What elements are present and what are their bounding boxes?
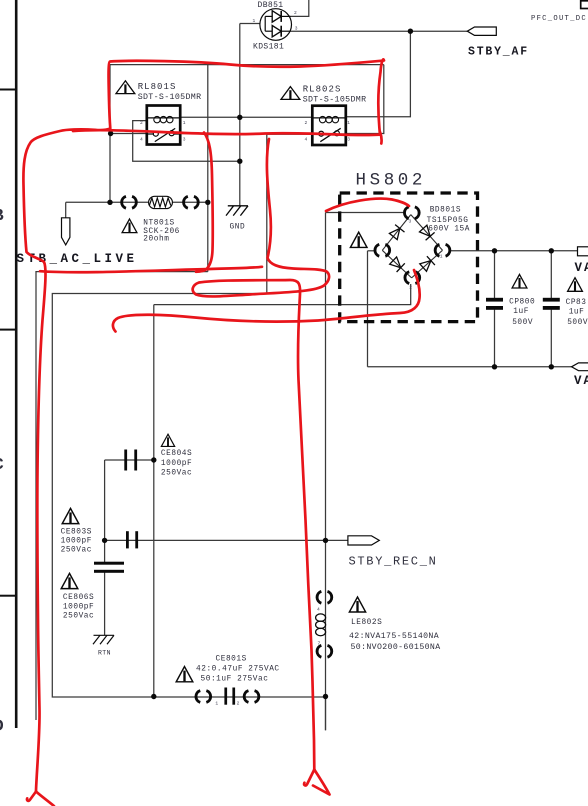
wire CP800 top lead [494, 251, 496, 299]
BD801S labels [427, 207, 470, 234]
net flag VA+ top right [578, 247, 588, 256]
CE806S labels [63, 594, 94, 620]
svg-text:3: 3 [347, 136, 350, 142]
wire NT801S row [66, 201, 149, 203]
wire LE802S bottom stub [325, 697, 327, 731]
svg-text:BD801S: BD801S [430, 207, 461, 215]
svg-text:42:NVA175-55140NA: 42:NVA175-55140NA [349, 632, 439, 641]
CE804S labels [161, 450, 192, 478]
svg-text:50:NVO200-60150NA: 50:NVO200-60150NA [351, 643, 441, 652]
svg-text:SCK-206: SCK-206 [143, 228, 180, 236]
wire vertical x=383.8 rail to RL802S pin3 [346, 65, 384, 134]
capacitor CE801S connector left [196, 691, 211, 703]
svg-text:1000pF: 1000pF [63, 603, 94, 611]
junction CP83x bottom [549, 364, 554, 369]
svg-text:50:1uF 275Vac: 50:1uF 275Vac [201, 676, 269, 684]
CE801S pin numbers [215, 701, 239, 707]
BD801S warning triangle [350, 232, 367, 247]
svg-text:TS15P05G: TS15P05G [427, 217, 469, 225]
red pen stroke: RL802S pin4 trace, loop and long descender [193, 139, 330, 795]
svg-text:4: 4 [140, 136, 143, 142]
CP800 labels [509, 299, 535, 327]
LE802S warning triangle [349, 597, 365, 612]
wire bridge right DC+ rail [451, 250, 578, 252]
junction relay coil bus upper [237, 115, 242, 120]
red pen stroke: trace down NT right vertical [196, 133, 213, 272]
red pen stroke: arc over bridge top wire [326, 199, 409, 211]
ground GND [226, 206, 248, 216]
capacitor CE806S [94, 562, 124, 573]
svg-text:CE804S: CE804S [161, 450, 192, 458]
junction CP800 bottom [492, 364, 497, 369]
svg-text:1: 1 [253, 18, 256, 24]
wire bridge top to long vertical [326, 212, 405, 214]
wire vertical x=153.8 [153, 305, 155, 697]
svg-text:PFC_OUT_DC-: PFC_OUT_DC- [531, 15, 588, 23]
bridge connector right (pin 1) [435, 244, 450, 256]
svg-text:1: 1 [215, 701, 218, 707]
svg-text:STB_AC_LIVE: STB_AC_LIVE [17, 252, 138, 266]
wire CP800 bottom lead [494, 310, 496, 367]
svg-text:CE803S: CE803S [61, 528, 92, 536]
svg-text:4: 4 [305, 136, 308, 142]
red pen stroke: relay loop with left tail [23, 59, 384, 806]
NT801S label [143, 220, 180, 244]
wire DB851 pin3 to STBY_AF flag [291, 30, 468, 32]
CE803S labels [61, 528, 92, 554]
junction STBY_REC_N node [323, 538, 328, 543]
svg-text:1000pF: 1000pF [161, 460, 192, 468]
svg-text:STBY_REC_N: STBY_REC_N [349, 555, 438, 569]
wire bottom DC- rail [368, 366, 573, 368]
CP83x warning triangle [568, 278, 583, 292]
svg-text:3: 3 [409, 219, 412, 225]
wire CE803S / STBY_REC_N row [105, 539, 348, 541]
wire bridge left stub [368, 250, 375, 252]
svg-text:RL801S: RL801S [138, 82, 177, 92]
red pen stroke: wavy line into loop from left [40, 267, 262, 272]
capacitor CE803S [126, 531, 138, 548]
svg-text:CE801S: CE801S [216, 656, 247, 664]
wire RL801S pin3 right [180, 133, 208, 135]
svg-text:CE806S: CE806S [63, 594, 94, 602]
bridge pin numbers [409, 219, 443, 291]
CE801S warning triangle [176, 667, 193, 682]
RL801S pin numbers [140, 120, 186, 142]
svg-text:RL802S: RL802S [303, 85, 342, 95]
svg-text:NT801S: NT801S [143, 220, 174, 228]
capacitor CE801S connector right [244, 691, 259, 703]
wire NT801S right segment [172, 201, 207, 203]
svg-text:B: B [0, 207, 4, 226]
RL801S warning triangle [116, 81, 135, 94]
svg-text:1000pF: 1000pF [61, 537, 92, 545]
border frame vertical line [0, 0, 16, 728]
svg-text:CP83: CP83 [566, 299, 587, 307]
wire RL801S pin4 left [110, 133, 147, 135]
junction CP83x top [549, 248, 554, 253]
svg-text:7: 7 [318, 641, 321, 647]
svg-text:500V: 500V [567, 319, 588, 327]
capacitor CE801S plates [224, 688, 235, 705]
svg-text:VA: VA [574, 374, 588, 388]
thermistor NT801S connector right [184, 196, 199, 208]
svg-text:LE802S: LE802S [351, 619, 382, 627]
svg-text:HS802: HS802 [356, 171, 427, 191]
thermistor NT801S body [149, 196, 173, 208]
svg-text:250Vac: 250Vac [61, 546, 92, 554]
wire vertical bridge-minus to bottom rail [367, 251, 369, 367]
thermistor NT801S connector left [122, 196, 137, 208]
ground RTN [93, 635, 114, 644]
wire DB851 pin2 up [291, 0, 309, 16]
wire top rail y=64.6 [110, 64, 384, 66]
CP83x labels [566, 299, 588, 327]
net flag STBY_REC_N [348, 536, 379, 545]
svg-text:20ohm: 20ohm [143, 236, 169, 244]
wire CE806S to RTN [104, 573, 106, 636]
svg-text:2: 2 [305, 120, 308, 126]
svg-text:1: 1 [183, 120, 186, 126]
wire CP83x bottom lead [550, 310, 552, 367]
wire CP83x top lead [550, 251, 552, 299]
CE801S labels [196, 656, 280, 684]
svg-text:2: 2 [140, 120, 143, 126]
svg-text:1uF: 1uF [513, 308, 529, 316]
net flag VA- bottom right [572, 363, 588, 371]
wire CE804S row [105, 459, 154, 461]
svg-text:2: 2 [294, 10, 297, 16]
inductor LE802S coil [316, 614, 326, 636]
relay RL801S [147, 106, 180, 145]
red pen stroke: loop corner overshoot tail [380, 132, 382, 144]
junction at STBY_AF branch [408, 29, 413, 34]
relay RL802S [312, 106, 346, 145]
svg-text:DB851: DB851 [258, 1, 284, 10]
RL802S pin numbers [305, 120, 351, 142]
CP800 warning triangle [512, 274, 527, 288]
junction bottom rail left [151, 694, 156, 699]
CE806S warning triangle [61, 573, 78, 588]
wire vertical x=207.8 rail to lower-left [207, 65, 209, 272]
wire RL802S pin4 down-around [52, 134, 325, 697]
NT801S warning triangle [122, 219, 137, 233]
junction CE804S [151, 457, 156, 462]
svg-text:1uF: 1uF [569, 308, 585, 316]
svg-text:3: 3 [183, 136, 186, 142]
junction relay coil bus lower [237, 159, 242, 164]
bridge connector top (pin 3) [404, 207, 419, 219]
svg-text:500V: 500V [512, 319, 533, 327]
inductor LE802S connector bottom (pin 7) [317, 645, 332, 657]
svg-text:1: 1 [440, 254, 443, 260]
wire RL801S pin2 jog [133, 121, 240, 162]
svg-text:250Vac: 250Vac [63, 612, 94, 620]
junction NT801S left [107, 200, 112, 205]
capacitor CE804S [124, 450, 137, 471]
DB851 pin numbers [253, 10, 298, 32]
svg-text:3: 3 [295, 26, 298, 32]
capacitor CP83x [543, 298, 560, 310]
wire vertical x=110 rail to NT801S [109, 65, 111, 203]
junction RL801S pin4 [108, 131, 113, 136]
svg-text:2: 2 [409, 285, 412, 291]
svg-text:250Vac: 250Vac [161, 470, 192, 478]
wire x=410 down to RL802S pin1 [346, 31, 411, 117]
junction NT801S right [205, 200, 210, 205]
junction bottom rail right [323, 694, 328, 699]
capacitor CP800 [486, 298, 503, 310]
svg-text:KDS181: KDS181 [253, 43, 284, 52]
dual diode DB851 [260, 9, 292, 41]
RL802S warning triangle [281, 87, 300, 100]
svg-text:STBY_AF: STBY_AF [468, 45, 529, 58]
junction CE803S left [102, 538, 107, 543]
wire RL801S pin1 to RL802S pin2 [180, 116, 312, 118]
svg-text:SDT-S-105DMR: SDT-S-105DMR [138, 93, 202, 102]
CE803S warning triangle [62, 508, 79, 523]
svg-text:4: 4 [317, 607, 320, 613]
wire W1 from NT right down-left [36, 272, 208, 720]
svg-text:VA: VA [575, 261, 588, 275]
wire DB851 pin1 to vertical [240, 23, 261, 25]
svg-text:CP800: CP800 [509, 299, 535, 307]
wire long vertical x=325.5 [325, 213, 327, 731]
svg-text:600V 15A: 600V 15A [428, 226, 470, 234]
wire STB_AC_LIVE stub [65, 202, 67, 218]
net flag STBY_AF [467, 27, 496, 35]
red pen stroke: bridge bottom trace going left [113, 270, 420, 332]
CE804S warning triangle [161, 434, 174, 446]
svg-text:2: 2 [237, 701, 240, 707]
svg-text:RTN: RTN [98, 650, 111, 657]
svg-text:42:0.47uF 275VAC: 42:0.47uF 275VAC [196, 666, 280, 674]
wire bridge bottom AC input [154, 284, 411, 305]
svg-text:1: 1 [347, 120, 350, 126]
bridge rectifier BD801S [382, 215, 442, 278]
PFC_OUT_DC corner box [581, 1, 588, 9]
LE802S labels [349, 619, 441, 652]
bridge connector left [375, 244, 390, 256]
svg-text:SDT-S-105DMR: SDT-S-105DMR [303, 95, 367, 104]
junction CP800 top [492, 248, 497, 253]
net flag STB_AC_LIVE [62, 218, 70, 245]
svg-text:C: C [0, 456, 4, 475]
svg-text:GND: GND [230, 223, 246, 231]
wire vertical x=104.6 CE804S to CE806S [104, 460, 106, 563]
LE802S pin numbers [317, 607, 321, 647]
wire vertical x=240 DB851/relay coils/GND [239, 24, 241, 206]
svg-text:D: D [0, 718, 4, 737]
bridge connector bottom (pin 2) [405, 272, 420, 284]
HS802 heatsink dashed box [340, 193, 478, 322]
inductor LE802S connector top (pin 4) [317, 591, 332, 603]
